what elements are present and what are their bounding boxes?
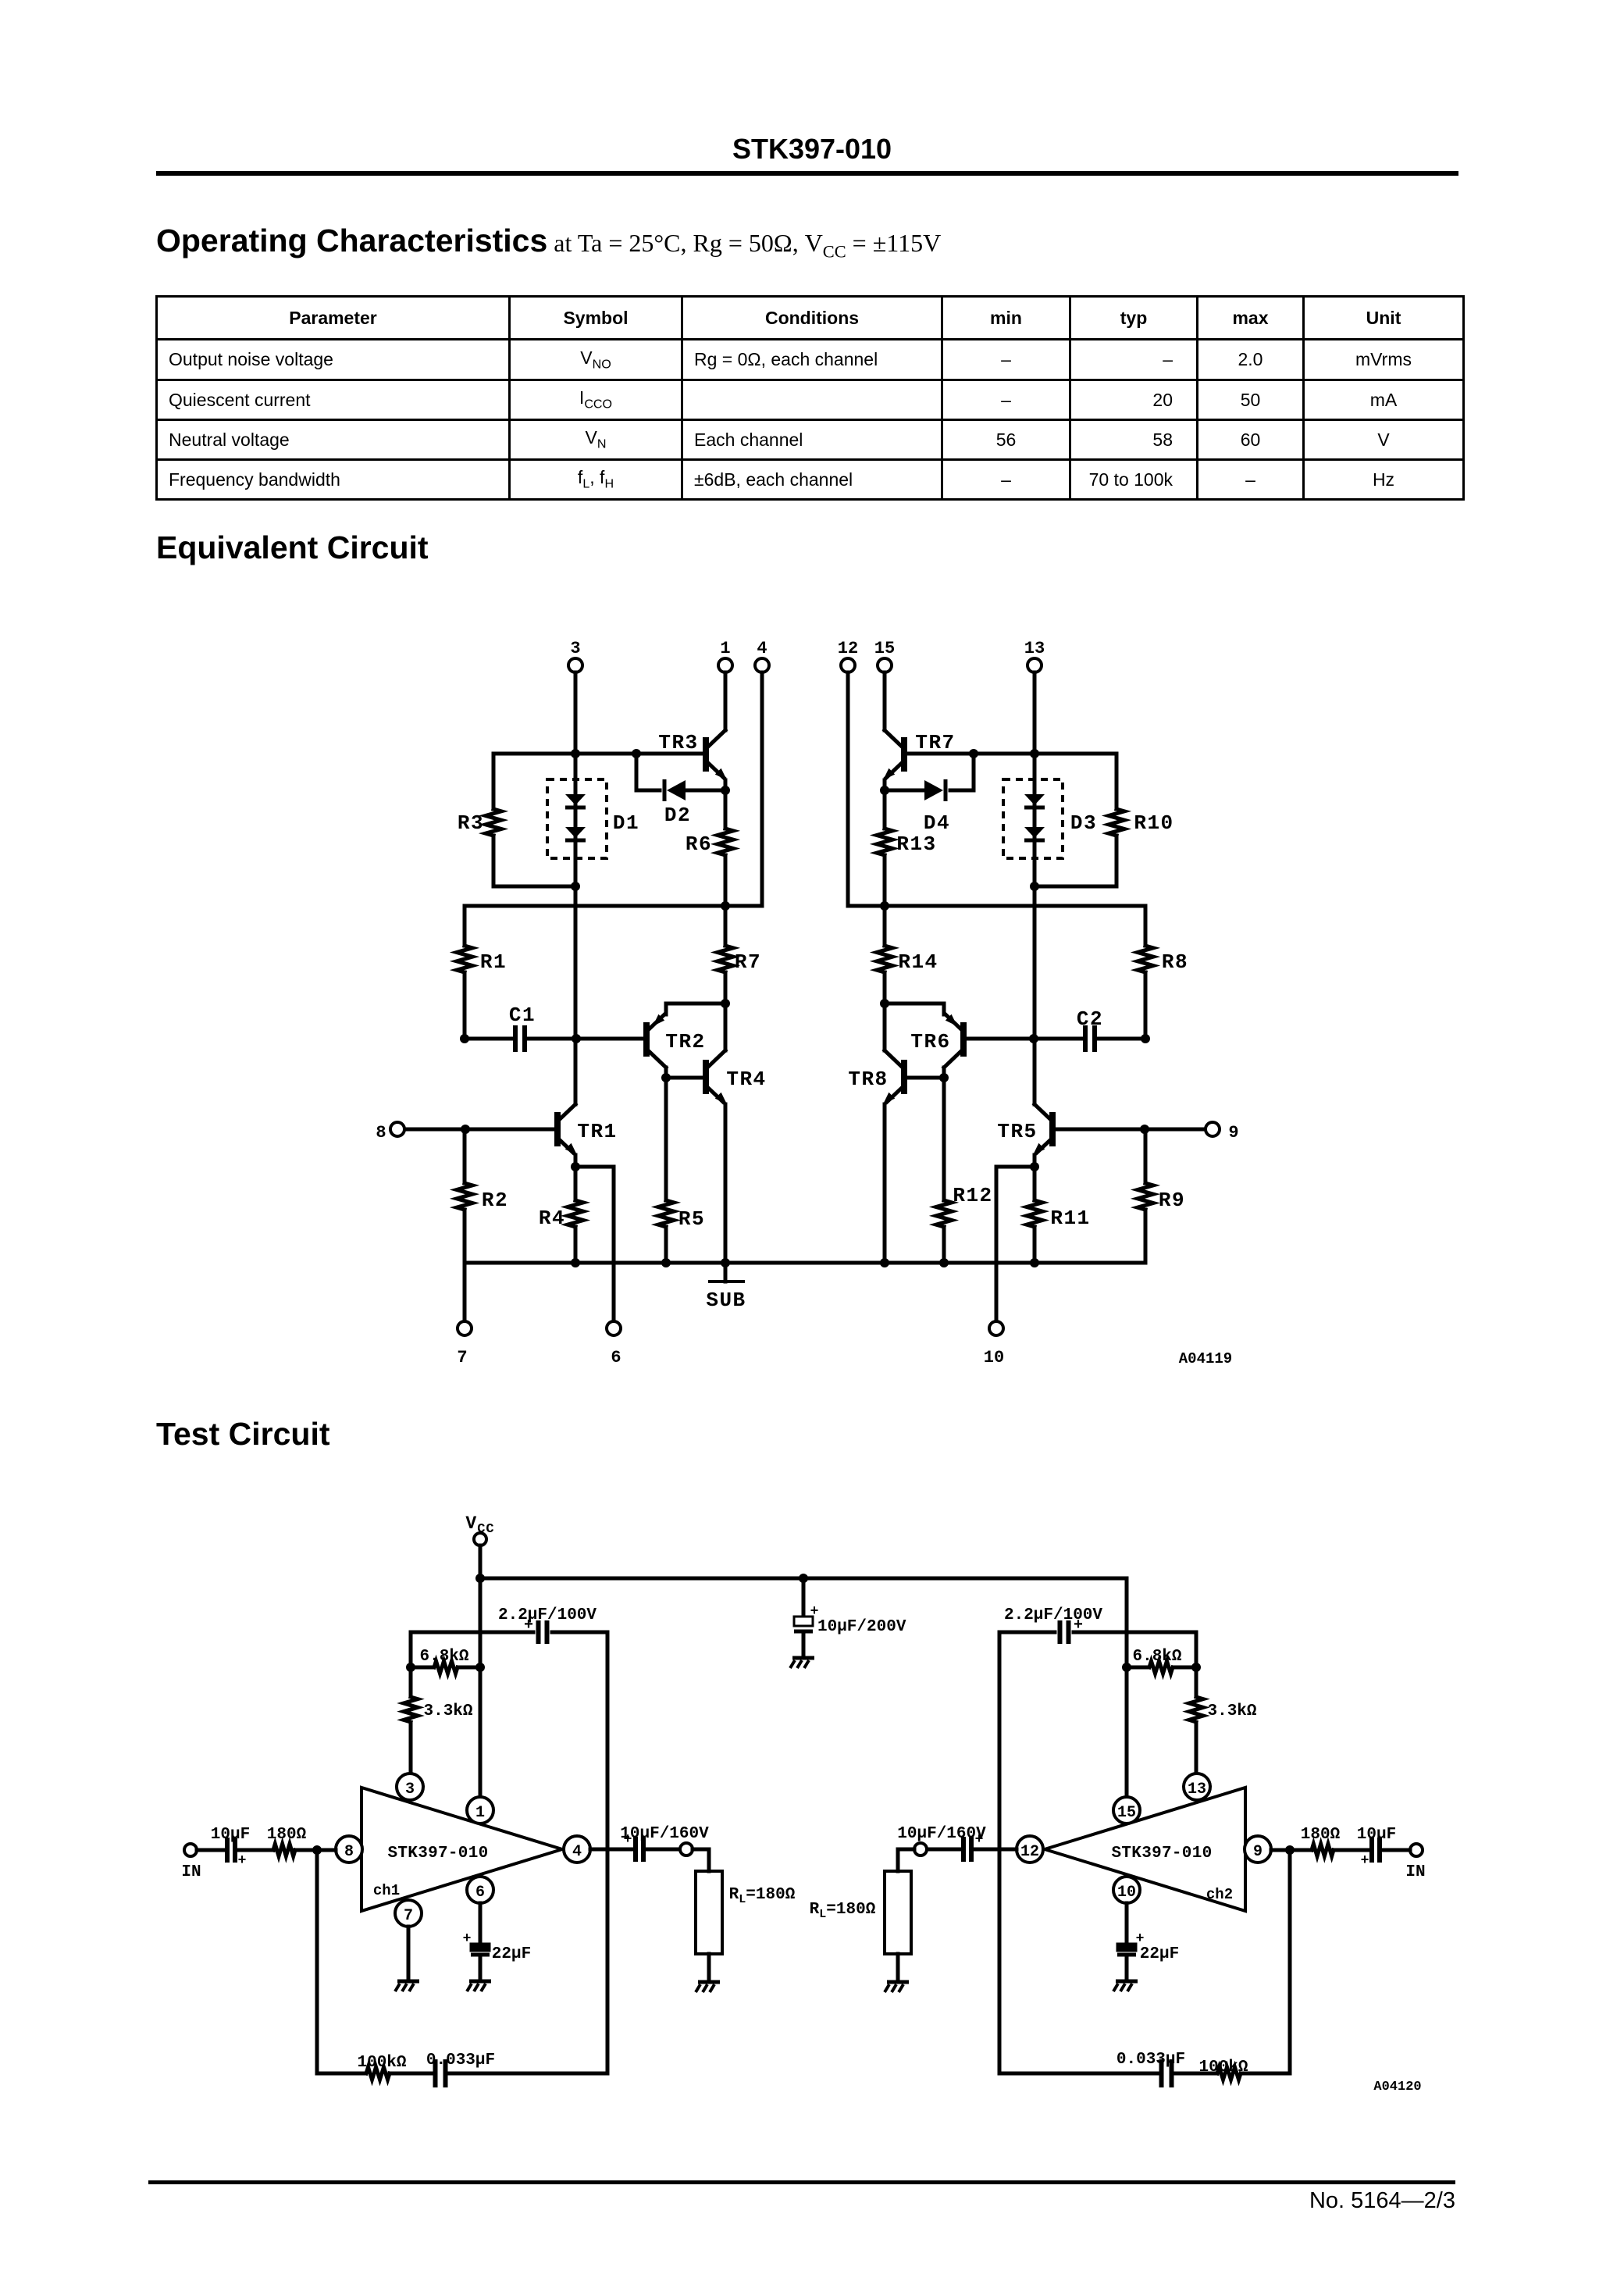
pin 9 terminal bbox=[1206, 1122, 1220, 1136]
resistor R10 bbox=[1115, 754, 1119, 809]
pin 15 terminal bbox=[878, 658, 892, 672]
table Operating Characteristics bbox=[155, 295, 1465, 501]
svg-text:+: + bbox=[463, 1931, 472, 1947]
resistor 180Ω input ch2 bbox=[1312, 1844, 1334, 1856]
svg-text:100kΩ: 100kΩ bbox=[357, 2054, 406, 2072]
svg-text:R13: R13 bbox=[896, 832, 936, 856]
svg-text:4: 4 bbox=[757, 639, 767, 658]
svg-text:SUB: SUB bbox=[706, 1289, 746, 1312]
capacitor 10µF input ch1 bbox=[197, 1848, 225, 1852]
pin 3 bbox=[397, 1774, 423, 1800]
diode D2 bbox=[636, 754, 660, 790]
pin 1 terminal bbox=[718, 658, 732, 672]
diode D4 bbox=[950, 754, 974, 790]
heading Equivalent Circuit bbox=[156, 529, 429, 566]
svg-text:3.3kΩ: 3.3kΩ bbox=[1207, 1702, 1256, 1720]
svg-text:ch2: ch2 bbox=[1206, 1886, 1233, 1903]
load resistor RL ch2 bbox=[898, 1849, 914, 1871]
capacitor 2.2µF/100V ch2 bbox=[1074, 1632, 1196, 1667]
svg-text:R14: R14 bbox=[898, 950, 938, 974]
svg-text:+: + bbox=[1136, 1931, 1145, 1947]
wire VCC rail bbox=[480, 1577, 1127, 1581]
svg-text:TR3: TR3 bbox=[658, 731, 698, 754]
pin 13 terminal bbox=[1027, 658, 1042, 672]
svg-text:6.8kΩ: 6.8kΩ bbox=[419, 1648, 468, 1666]
feedback wire ch2 bbox=[1243, 1850, 1290, 2073]
resistor 100kΩ ch2 bbox=[1217, 2067, 1241, 2080]
svg-text:TR6: TR6 bbox=[910, 1030, 950, 1053]
svg-text:10µF: 10µF bbox=[211, 1826, 250, 1844]
svg-text:10µF/160V: 10µF/160V bbox=[620, 1825, 709, 1843]
footer page number bbox=[1218, 2188, 1455, 2214]
transistor TR8 bbox=[907, 1076, 944, 1080]
diode D1 (dual, dashed box) bbox=[547, 779, 607, 858]
resistor 3.3kΩ ch1 bbox=[409, 1667, 413, 1695]
pin 12 bbox=[1017, 1836, 1043, 1863]
resistor R9 bbox=[1144, 1129, 1148, 1183]
svg-text:R5: R5 bbox=[678, 1207, 705, 1231]
op-amp STK397-010 ch1 bbox=[361, 1788, 562, 1911]
wire top bias ch2 bbox=[906, 752, 1116, 756]
svg-text:1: 1 bbox=[720, 639, 730, 658]
svg-text:TR8: TR8 bbox=[848, 1068, 888, 1091]
resistor R1 bbox=[463, 906, 467, 946]
header rule bbox=[156, 171, 1458, 176]
feedback wire ch1 bbox=[317, 1850, 364, 2073]
pin 7 bbox=[395, 1900, 422, 1927]
svg-text:0.033µF: 0.033µF bbox=[1116, 2051, 1185, 2069]
pin 8 terminal bbox=[390, 1122, 404, 1136]
resistor R5 bbox=[664, 1078, 668, 1200]
svg-text:+: + bbox=[810, 1604, 819, 1620]
transistor TR1 bbox=[405, 1128, 555, 1132]
svg-text:TR2: TR2 bbox=[665, 1030, 705, 1053]
pin 8 bbox=[336, 1836, 362, 1863]
svg-text:6: 6 bbox=[611, 1348, 621, 1367]
resistor R7 bbox=[724, 906, 728, 946]
diode D3 (dual, dashed box) bbox=[1003, 779, 1063, 858]
svg-text:R6: R6 bbox=[686, 832, 712, 856]
pin 10 bbox=[1113, 1877, 1140, 1903]
heading Operating Characteristics bbox=[156, 223, 941, 262]
resistor R12 bbox=[942, 1078, 946, 1200]
svg-text:22µF: 22µF bbox=[1140, 1945, 1179, 1963]
capacitor 22µF ch2 bbox=[1125, 1903, 1129, 1944]
svg-text:IN: IN bbox=[1405, 1863, 1425, 1881]
capacitor 22µF ch1 bbox=[479, 1903, 483, 1944]
svg-text:RL=180Ω: RL=180Ω bbox=[810, 1901, 876, 1921]
svg-text:STK397-010: STK397-010 bbox=[387, 1845, 488, 1863]
capacitor 0.033µF ch1 bbox=[433, 2059, 438, 2087]
svg-text:3: 3 bbox=[405, 1781, 415, 1799]
resistor R6 bbox=[724, 790, 728, 829]
svg-text:3.3kΩ: 3.3kΩ bbox=[423, 1702, 472, 1720]
input terminal IN ch2 bbox=[1410, 1844, 1423, 1856]
wire rail to pin 1 bbox=[479, 1578, 483, 1796]
svg-text:4: 4 bbox=[572, 1843, 582, 1861]
ground rail wire bbox=[465, 1261, 1145, 1265]
svg-text:15: 15 bbox=[1117, 1804, 1136, 1822]
resistor R8 bbox=[1144, 906, 1148, 946]
capacitor 10µF/160V ch1 bbox=[590, 1848, 632, 1852]
svg-text:D1: D1 bbox=[613, 811, 639, 835]
transistor TR3 bbox=[703, 737, 709, 772]
svg-text:STK397-010: STK397-010 bbox=[1111, 1845, 1212, 1863]
wire bus ch2 bbox=[848, 904, 1145, 908]
wire pin 12 to bus bbox=[846, 672, 850, 906]
svg-text:7: 7 bbox=[404, 1907, 413, 1925]
svg-text:C1: C1 bbox=[509, 1004, 536, 1027]
resistor 6.8kΩ ch2 bbox=[1175, 1666, 1196, 1670]
svg-text:R12: R12 bbox=[953, 1184, 992, 1207]
svg-text:0.033µF: 0.033µF bbox=[426, 2052, 495, 2069]
pin 1 bbox=[467, 1797, 493, 1823]
resistor R14 bbox=[883, 906, 887, 946]
svg-text:10µF/200V: 10µF/200V bbox=[817, 1618, 906, 1636]
transistor TR4 bbox=[666, 1076, 703, 1080]
svg-text:6.8kΩ: 6.8kΩ bbox=[1132, 1648, 1181, 1666]
svg-text:TR1: TR1 bbox=[577, 1120, 617, 1143]
capacitor C1 bbox=[465, 1037, 515, 1041]
capacitor C2 bbox=[1095, 1037, 1145, 1041]
resistor R11 bbox=[1033, 1167, 1037, 1200]
page title STK397-010 bbox=[0, 133, 1624, 166]
svg-text:R1: R1 bbox=[480, 950, 507, 974]
svg-text:+: + bbox=[238, 1853, 247, 1869]
svg-text:10: 10 bbox=[984, 1348, 1004, 1367]
svg-text:A04119: A04119 bbox=[1179, 1350, 1232, 1367]
svg-text:7: 7 bbox=[457, 1348, 467, 1367]
ground pin 7 bbox=[397, 1980, 419, 1984]
svg-text:13: 13 bbox=[1188, 1781, 1206, 1799]
svg-text:8: 8 bbox=[344, 1843, 354, 1861]
pin 13 bbox=[1184, 1774, 1210, 1800]
svg-text:22µF: 22µF bbox=[492, 1945, 531, 1963]
svg-text:IN: IN bbox=[181, 1863, 201, 1881]
svg-text:R10: R10 bbox=[1134, 811, 1173, 835]
svg-text:A04120: A04120 bbox=[1373, 2080, 1421, 2094]
resistor R13 bbox=[883, 790, 887, 829]
svg-text:R3: R3 bbox=[458, 811, 484, 835]
svg-text:R9: R9 bbox=[1159, 1189, 1185, 1212]
output terminal ch1 bbox=[680, 1843, 693, 1856]
resistor R2 bbox=[463, 1129, 467, 1183]
transistor TR7 bbox=[901, 737, 907, 772]
svg-text:+: + bbox=[1361, 1853, 1369, 1869]
node SUB bbox=[724, 1263, 728, 1282]
transistor TR2 bbox=[643, 1022, 650, 1057]
capacitor 2.2µF/100V ch1 bbox=[411, 1632, 533, 1667]
resistor 100kΩ ch1 bbox=[366, 2067, 390, 2080]
svg-text:RL=180Ω: RL=180Ω bbox=[729, 1886, 796, 1906]
pin 9 bbox=[1245, 1836, 1271, 1863]
pin 7 terminal bbox=[463, 1263, 467, 1321]
svg-text:3: 3 bbox=[570, 639, 580, 658]
wire rail to pin 15 bbox=[1125, 1578, 1129, 1796]
pin 6 bbox=[467, 1877, 493, 1903]
resistor R4 bbox=[574, 1167, 578, 1200]
svg-text:R8: R8 bbox=[1162, 950, 1188, 974]
pin 12 terminal bbox=[841, 658, 855, 672]
svg-text:R2: R2 bbox=[482, 1189, 508, 1212]
ground 22µF ch1 bbox=[469, 1980, 491, 1984]
pin 6 terminal bbox=[607, 1321, 621, 1335]
svg-text:R4: R4 bbox=[539, 1207, 565, 1230]
svg-text:180Ω: 180Ω bbox=[267, 1826, 307, 1844]
svg-text:15: 15 bbox=[874, 639, 895, 658]
wire pin 4 to bus bbox=[760, 672, 764, 906]
resistor 180Ω input ch1 bbox=[273, 1844, 295, 1856]
ground load ch2 bbox=[887, 1980, 909, 1984]
ground load ch1 bbox=[698, 1980, 720, 1984]
footer rule bbox=[148, 2180, 1455, 2184]
transistor TR5 bbox=[1055, 1128, 1205, 1132]
svg-text:2.2µF/100V: 2.2µF/100V bbox=[498, 1606, 597, 1624]
svg-text:12: 12 bbox=[838, 639, 858, 658]
svg-text:C2: C2 bbox=[1077, 1007, 1103, 1031]
svg-text:D3: D3 bbox=[1070, 811, 1097, 835]
ground 22µF ch2 bbox=[1116, 1980, 1138, 1984]
svg-text:TR4: TR4 bbox=[726, 1068, 766, 1091]
svg-text:ch1: ch1 bbox=[373, 1882, 400, 1899]
pin 15 bbox=[1113, 1797, 1140, 1823]
resistor 3.3kΩ ch2 bbox=[1195, 1667, 1198, 1695]
svg-text:10µF/160V: 10µF/160V bbox=[897, 1825, 986, 1843]
svg-text:9: 9 bbox=[1228, 1123, 1238, 1143]
svg-text:10µF: 10µF bbox=[1357, 1826, 1396, 1844]
svg-text:2.2µF/100V: 2.2µF/100V bbox=[1004, 1606, 1102, 1624]
svg-text:10: 10 bbox=[1117, 1884, 1136, 1902]
ground 10µF/200V bbox=[792, 1656, 814, 1660]
pin 4 bbox=[564, 1836, 590, 1863]
svg-text:TR5: TR5 bbox=[997, 1120, 1037, 1143]
capacitor 10µF/160V ch2 bbox=[974, 1848, 1017, 1852]
svg-text:6: 6 bbox=[475, 1884, 485, 1902]
transistor TR6 bbox=[960, 1022, 967, 1057]
svg-text:D2: D2 bbox=[664, 804, 691, 827]
svg-text:100kΩ: 100kΩ bbox=[1198, 2059, 1248, 2077]
heading Test Circuit bbox=[156, 1416, 330, 1453]
load resistor RL ch1 bbox=[693, 1849, 709, 1871]
pin 3 terminal bbox=[568, 658, 582, 672]
svg-text:13: 13 bbox=[1024, 639, 1045, 658]
svg-text:180Ω: 180Ω bbox=[1301, 1826, 1341, 1844]
capacitor 0.033µF ch2 bbox=[1159, 2059, 1164, 2087]
svg-text:D4: D4 bbox=[924, 811, 950, 835]
svg-text:8: 8 bbox=[376, 1123, 386, 1143]
pin 10 terminal bbox=[989, 1321, 1003, 1335]
capacitor 10µF/200V bbox=[802, 1578, 806, 1618]
svg-text:9: 9 bbox=[1253, 1843, 1263, 1861]
op-amp STK397-010 ch2 bbox=[1045, 1788, 1245, 1911]
wire bus ch1 bbox=[465, 904, 762, 908]
svg-text:R7: R7 bbox=[735, 950, 761, 974]
wire top bias ch1 bbox=[493, 752, 703, 756]
pin 4 terminal bbox=[755, 658, 769, 672]
input terminal IN ch1 bbox=[184, 1844, 197, 1856]
svg-text:TR7: TR7 bbox=[915, 731, 955, 754]
resistor R3 bbox=[492, 754, 496, 809]
resistor 6.8kΩ ch1 bbox=[411, 1666, 432, 1670]
svg-text:12: 12 bbox=[1020, 1843, 1039, 1861]
svg-text:R11: R11 bbox=[1050, 1207, 1090, 1230]
output terminal ch2 bbox=[914, 1843, 927, 1856]
svg-text:1: 1 bbox=[475, 1804, 485, 1822]
capacitor 10µF input ch2 bbox=[1382, 1848, 1410, 1852]
